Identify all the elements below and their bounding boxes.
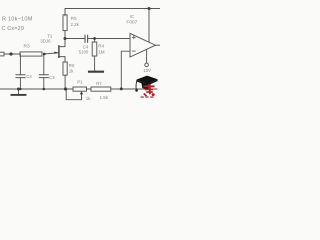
svg-text:1k: 1k (69, 69, 74, 74)
logo tassel knob (135, 89, 138, 92)
svg-text:R 10k~10M: R 10k~10M (2, 17, 33, 23)
logo board top (136, 76, 157, 84)
resistor R7 (91, 87, 111, 91)
svg-text:1k: 1k (86, 96, 91, 101)
junction input node (9, 52, 12, 55)
wire C3 branch (43, 54, 45, 75)
wire gate lead (44, 53, 59, 54)
junction drain node (64, 37, 67, 40)
op-amp minus marker (132, 50, 135, 52)
svg-text:1.5k: 1.5k (100, 95, 109, 100)
resistor R3 (20, 52, 42, 56)
svg-text:C3: C3 (49, 75, 55, 80)
svg-text:IC: IC (130, 14, 134, 19)
svg-text:2.2k: 2.2k (70, 22, 79, 27)
wire C2 branch (19, 54, 21, 75)
svg-text:R7: R7 (96, 81, 102, 86)
junction R4 top (93, 37, 96, 40)
wire C4 to op-amp (88, 38, 130, 40)
terminal circle 15V (145, 63, 149, 67)
capacitor C2 (16, 75, 25, 78)
logo red glyph strokes (141, 84, 155, 98)
wire P1 wiper stem (66, 89, 81, 100)
wire R5 bottom (64, 31, 66, 39)
svg-text:5100: 5100 (79, 50, 89, 55)
junction top rail (148, 7, 151, 10)
wire input to R3 (4, 53, 20, 55)
P1 wiper arrowhead (80, 91, 83, 94)
wire V- to terminal (146, 49, 148, 63)
ground bottom left stem (18, 89, 20, 94)
op-amp U1 triangle (130, 33, 156, 57)
junction C2 rail (19, 88, 21, 90)
svg-text:F007: F007 (126, 20, 137, 26)
wire V+ supply (148, 9, 150, 43)
svg-text:15V: 15V (143, 68, 151, 73)
wire top rail (65, 9, 160, 16)
jfet drain lead (59, 39, 65, 47)
junction C3 rail (43, 88, 46, 91)
logo tassel (136, 80, 137, 89)
wire drain to C4 (65, 38, 85, 40)
wire bottom rail right (111, 88, 157, 90)
junction feedback rail (120, 87, 123, 90)
junction gate node (43, 53, 46, 56)
logo board thickness (136, 79, 157, 85)
svg-text:3DJ6: 3DJ6 (40, 39, 51, 44)
junction ground rail (17, 88, 20, 91)
potentiometer P1 (73, 87, 87, 91)
wire bottom rail left (0, 88, 73, 90)
op-amp output wire (156, 44, 161, 46)
ground bottom left bar (12, 94, 26, 96)
svg-text:P1: P1 (77, 79, 83, 84)
wire inverting input (121, 51, 130, 89)
jfet T1 channel bar (58, 46, 60, 57)
svg-text:1M: 1M (98, 50, 105, 55)
capacitor C3 (39, 75, 48, 78)
svg-text:R3: R3 (24, 44, 30, 50)
svg-text:R4: R4 (98, 44, 104, 49)
resistor R6 (63, 62, 67, 75)
input box left edge (0, 52, 4, 56)
svg-text:R6: R6 (69, 63, 75, 68)
resistor R4 (94, 39, 96, 43)
logo cap body (141, 83, 150, 89)
jfet source lead (59, 57, 65, 62)
junction R6 rail (64, 87, 67, 90)
ground under R4 (89, 71, 103, 73)
jfet gate arrowhead (54, 52, 58, 54)
svg-text:R5: R5 (71, 16, 77, 21)
svg-text:C2: C2 (26, 74, 32, 79)
watermark logo graduation cap (135, 76, 157, 98)
capacitor C4 (85, 35, 88, 42)
svg-text:C Cx=29: C Cx=29 (2, 26, 25, 32)
resistor R5 (63, 15, 67, 31)
wire P1 to R7 (87, 88, 92, 90)
wire R6 to rail (64, 75, 66, 89)
op-amp plus marker (132, 36, 135, 39)
